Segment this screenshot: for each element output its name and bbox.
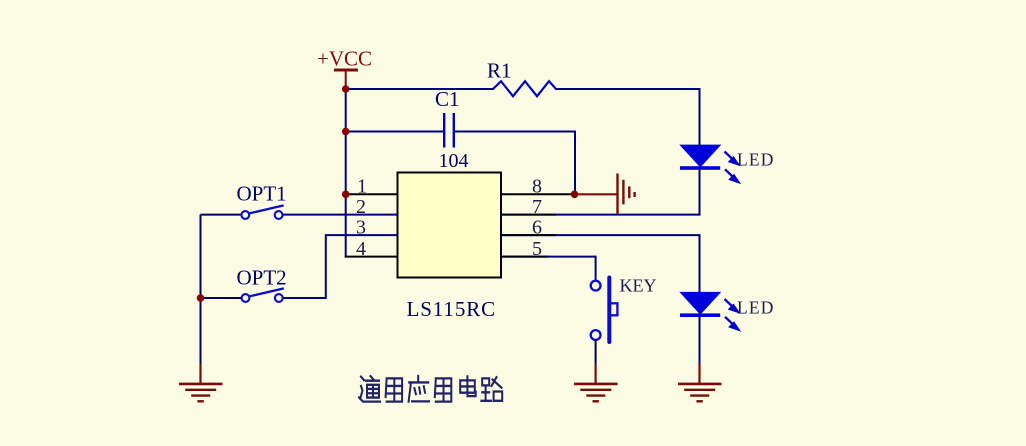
svg-text:R1: R1: [487, 59, 512, 83]
wire: left rail to OPT1: [201, 214, 243, 216]
svg-text:+VCC: +VCC: [317, 47, 372, 71]
svg-text:7: 7: [532, 196, 542, 218]
wire: R1 to LED1 anode: [555, 89, 700, 146]
svg-text:C1: C1: [435, 87, 460, 111]
LED D2: [680, 293, 720, 317]
LED D2 emission arrows: [725, 299, 739, 330]
svg-text:5: 5: [532, 238, 542, 260]
char 用: [435, 378, 452, 401]
IC U1 LS115RC: [398, 173, 502, 278]
wire: bus to C1 left plate: [346, 131, 444, 133]
char 用: [386, 378, 403, 401]
wire: OPT2 riser to pin 3: [283, 235, 398, 298]
svg-text:LED: LED: [737, 298, 775, 318]
svg-text:6: 6: [532, 216, 542, 238]
wire: vertical bus VCC to pin4: [345, 89, 347, 257]
wire: pin4 into IC: [345, 256, 398, 258]
wire: rail to OPT2: [201, 297, 243, 299]
junction node: pin8/C1/ground: [571, 191, 579, 199]
junction node: bus/pin1: [342, 191, 350, 199]
char 通: [359, 376, 380, 402]
char 电: [460, 376, 476, 396]
wire: OPT1 to pin 2: [283, 214, 398, 216]
char 路: [481, 377, 502, 401]
wire: LED2 cathode to ground: [699, 317, 701, 365]
junction node: bus/C1: [342, 128, 350, 136]
push button KEY: [591, 278, 618, 343]
char 应: [409, 376, 429, 402]
svg-text:8: 8: [532, 176, 542, 198]
wire: pin 6 to LED2 anode: [500, 235, 700, 293]
switch OPT1: [241, 205, 283, 219]
ground below left rail: [179, 364, 223, 401]
svg-text:OPT2: OPT2: [237, 266, 287, 290]
switch OPT2: [242, 288, 284, 302]
svg-text:1: 1: [357, 176, 367, 198]
svg-text:2: 2: [356, 196, 366, 218]
pin 1 stub: [345, 193, 398, 195]
wire: C1 right plate to pin8 node: [454, 132, 575, 195]
wire: VCC node to R1: [346, 88, 494, 90]
LED D1: [680, 145, 720, 169]
svg-text:3: 3: [356, 216, 366, 238]
power +VCC: [317, 47, 372, 90]
junction node: VCC/R1: [342, 85, 350, 93]
wire: left rail vertical: [200, 215, 202, 365]
svg-text:OPT1: OPT1: [237, 182, 287, 206]
svg-text:4: 4: [356, 238, 366, 260]
svg-text:104: 104: [439, 150, 469, 172]
svg-text:LS115RC: LS115RC: [407, 297, 497, 321]
capacitor C1: [444, 113, 454, 148]
ground below KEY: [574, 364, 618, 401]
wire: pin 7 to LED1 cathode: [500, 169, 700, 215]
pin 8 stub: [500, 193, 575, 195]
svg-text:LED: LED: [737, 150, 775, 170]
wire: KEY to ground: [595, 340, 597, 365]
LED D1 emission arrows: [725, 152, 739, 183]
resistor R1: [493, 81, 556, 96]
ground below LED2: [678, 364, 722, 401]
title 通用应用电路 (drawn strokes): [359, 376, 502, 402]
junction node: rail/OPT2: [197, 294, 205, 302]
wire: pin 5 to KEY: [500, 257, 596, 281]
ground (horizontal) at pin 8: [575, 174, 635, 215]
svg-text:KEY: KEY: [620, 276, 657, 296]
